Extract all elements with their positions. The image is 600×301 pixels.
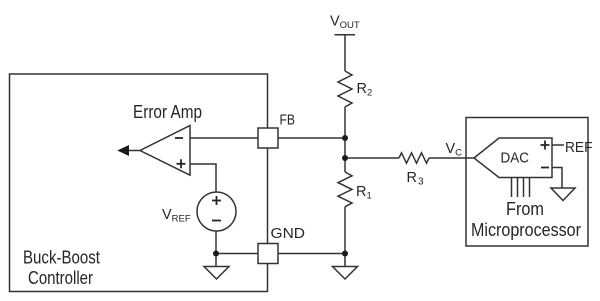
junction dot VC node: [342, 155, 348, 161]
wire FB node to VC node: [344, 138, 346, 158]
svg-text:From: From: [506, 198, 544, 219]
wire FB pin to node FB: [278, 137, 345, 139]
label VOUT: [330, 14, 360, 32]
svg-text:Error Amp: Error Amp: [133, 101, 202, 122]
label FB: [280, 113, 296, 129]
FB pin square: [258, 128, 278, 148]
VREF source plus sign: [212, 196, 221, 205]
DAC minus sign: [541, 167, 549, 169]
label R3: [407, 170, 424, 188]
wire R2 to FB node: [344, 107, 346, 138]
svg-text:R3: R3: [407, 170, 424, 188]
svg-text:R2: R2: [357, 81, 373, 99]
ground symbol under R1: [333, 254, 358, 280]
label DAC: [501, 151, 530, 167]
wire GND pin to R1 ground node: [278, 253, 345, 255]
svg-text:Microprocessor: Microprocessor: [471, 219, 581, 240]
label Controller: [28, 267, 93, 288]
wire R1 to ground node: [344, 207, 346, 254]
junction dot R1 ground node: [342, 251, 348, 257]
junction dot FB node: [342, 135, 348, 141]
label Error Amp: [133, 101, 202, 122]
wire op-amp plus input to VREF: [190, 164, 216, 192]
ground symbol under VREF: [204, 254, 229, 280]
label R1: [356, 184, 372, 202]
VREF source V1: [197, 192, 236, 231]
svg-text:GND: GND: [271, 225, 306, 242]
op-amp output arrowhead: [119, 146, 129, 155]
wire VREF to ground node: [215, 231, 217, 254]
svg-text:R1: R1: [356, 184, 372, 202]
DAC plus sign: [541, 141, 550, 150]
wire R3 to DAC input: [429, 157, 474, 159]
svg-text:REF: REF: [565, 140, 593, 156]
op-amp minus sign: [175, 137, 183, 139]
wire VC node to R3: [345, 157, 399, 159]
wire DAC plus to REF: [552, 144, 564, 146]
wire op-amp minus input to FB pin: [190, 137, 258, 139]
wire VC node to R1: [344, 158, 346, 172]
svg-text:DAC: DAC: [501, 151, 530, 167]
label R2: [357, 81, 373, 99]
svg-text:FB: FB: [280, 113, 296, 129]
svg-text:VC: VC: [446, 141, 463, 159]
resistor R3: [399, 153, 429, 163]
svg-text:Controller: Controller: [28, 267, 93, 288]
label REF: [565, 140, 593, 156]
GND pin square: [258, 244, 278, 264]
op-amp plus sign: [177, 159, 186, 168]
svg-text:VREF: VREF: [162, 207, 191, 225]
svg-text:VOUT: VOUT: [330, 14, 360, 32]
resistor R1: [338, 172, 352, 207]
junction dot VREF ground node: [213, 251, 219, 257]
wire VOUT to R2: [344, 35, 346, 71]
resistor R2: [338, 71, 352, 107]
Microprocessor box: [466, 118, 588, 247]
DAC U2: [474, 138, 552, 178]
op-amp U1: [140, 126, 190, 176]
label Buck-Boost: [23, 246, 100, 267]
op-amp output wire: [126, 150, 140, 152]
Buck-Boost Controller box: [10, 74, 268, 292]
DAC bus lines: [512, 178, 530, 197]
label VC: [446, 141, 463, 159]
wire DAC minus to ground: [552, 168, 562, 189]
ground symbol at DAC: [551, 188, 575, 201]
label Microprocessor: [471, 219, 581, 240]
wire VREF node to GND pin: [216, 253, 258, 255]
label VREF: [162, 207, 191, 225]
svg-text:Buck-Boost: Buck-Boost: [23, 246, 100, 267]
label From: [506, 198, 544, 219]
label GND: [271, 225, 306, 242]
VREF source minus sign: [212, 220, 221, 222]
node VOUT terminal: [335, 34, 356, 36]
